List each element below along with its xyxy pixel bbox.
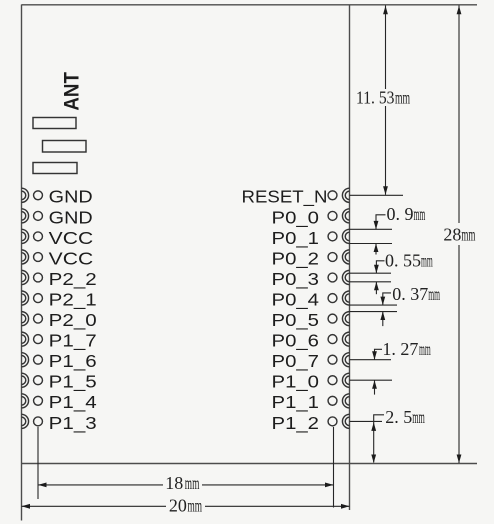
pin VCC (left row 3)	[22, 228, 94, 248]
dimension 1.27mm extension line at P1_0 row	[350, 379, 393, 381]
svg-text:P0_4: P0_4	[272, 289, 320, 310]
svg-text:11. 53: 11. 53	[356, 88, 395, 108]
svg-text:VCC: VCC	[49, 228, 93, 248]
svg-text:P1_6: P1_6	[49, 351, 97, 372]
pin RESET_N (right row 1)	[242, 187, 350, 208]
dimension 11.53mm line	[383, 6, 388, 195]
svg-text:P0_1: P0_1	[272, 228, 320, 249]
svg-text:P1_0: P1_0	[272, 372, 320, 393]
svg-text:2. 5: 2. 5	[385, 407, 412, 427]
svg-text:18: 18	[165, 473, 183, 493]
pin P1_5 (left row 10)	[22, 372, 97, 393]
module outline right edge	[349, 5, 351, 511]
dimension 0.37mm tangent lines between P0_4 and P0_5 pads	[350, 304, 398, 306]
pin P1_3 (left row 12)	[22, 413, 97, 434]
svg-text:mm: mm	[412, 409, 425, 428]
svg-text:P1_3: P1_3	[49, 413, 97, 434]
svg-text:P1_4: P1_4	[49, 392, 97, 413]
svg-text:28: 28	[443, 225, 461, 245]
extension line from pin P1_3 via	[37, 427, 39, 499]
pin P1_1 (right row 11)	[272, 392, 350, 413]
pin P1_7 (left row 8)	[22, 331, 97, 352]
svg-text:mm: mm	[188, 496, 203, 516]
svg-text:P0_0: P0_0	[272, 207, 320, 228]
extension line from pin P1_2 via	[333, 427, 335, 508]
svg-text:mm: mm	[395, 89, 411, 109]
dimension 2.5mm leader and arrows	[371, 415, 384, 463]
dimension 0.9mm tangent lines at P0_1 pad	[350, 228, 393, 230]
svg-text:P0_7: P0_7	[272, 351, 320, 372]
antenna pad 3	[33, 163, 77, 174]
pin P0_7 (right row 9)	[272, 351, 350, 372]
svg-text:ANT: ANT	[60, 72, 83, 111]
svg-text:P0_3: P0_3	[272, 269, 320, 290]
module outline top edge	[22, 4, 478, 6]
pin P2_2 (left row 5)	[22, 269, 97, 290]
pin P0_6 (right row 8)	[272, 331, 350, 352]
svg-text:mm: mm	[414, 204, 426, 224]
dimension 0.37mm leader and arrows	[380, 293, 391, 326]
pin VCC (left row 4)	[22, 248, 94, 268]
svg-text:P2_2: P2_2	[49, 269, 97, 290]
dimension 28mm line	[457, 6, 462, 464]
svg-text:P1_2: P1_2	[272, 413, 320, 434]
pin P0_0 (right row 2)	[272, 207, 350, 228]
dimension 20mm line	[22, 504, 350, 509]
svg-text:mm: mm	[419, 339, 431, 359]
antenna pad 2	[43, 141, 87, 153]
svg-text:P0_6: P0_6	[272, 331, 320, 352]
pin P2_0 (left row 7)	[22, 310, 98, 331]
dimension 1.27mm extension line at P0_7 row	[350, 359, 392, 361]
svg-text:GND: GND	[49, 187, 93, 207]
svg-text:mm: mm	[428, 284, 440, 304]
dimension 0.9mm leader and arrows	[374, 215, 386, 255]
svg-text:0. 37: 0. 37	[392, 284, 428, 304]
dimension 2.5mm extension line at P1_2 row	[350, 420, 383, 422]
svg-text:0. 55: 0. 55	[385, 250, 421, 270]
pin P0_3 (right row 5)	[272, 269, 350, 290]
svg-text:GND: GND	[49, 207, 93, 227]
svg-text:RESET_N: RESET_N	[242, 187, 328, 208]
svg-text:P1_5: P1_5	[49, 372, 97, 393]
dimension 0.55mm leader and arrows	[374, 261, 385, 294]
svg-text:P0_2: P0_2	[272, 248, 320, 269]
svg-text:VCC: VCC	[49, 248, 93, 268]
pin P1_6 (left row 9)	[22, 351, 97, 372]
pin P0_1 (right row 3)	[272, 228, 350, 249]
svg-text:1. 27: 1. 27	[382, 339, 418, 359]
svg-text:mm: mm	[421, 251, 433, 271]
module outline bottom edge	[22, 463, 478, 465]
pin P0_4 (right row 6)	[272, 289, 350, 310]
dimension 11.53mm extension line at RESET_N row	[350, 194, 404, 196]
pin P0_5 (right row 7)	[272, 310, 350, 331]
dimension 18mm line	[38, 483, 334, 488]
antenna pad 1	[33, 118, 76, 129]
pin GND (left row 1)	[22, 187, 93, 207]
svg-text:mm: mm	[461, 225, 475, 245]
pin P1_2 (right row 12)	[272, 413, 350, 434]
svg-text:0. 9: 0. 9	[387, 204, 414, 224]
module outline left edge	[21, 5, 23, 521]
svg-text:mm: mm	[185, 474, 200, 494]
svg-text:P2_1: P2_1	[49, 289, 97, 310]
svg-text:20: 20	[169, 495, 187, 515]
svg-text:P1_7: P1_7	[49, 331, 97, 352]
pin GND (left row 2)	[22, 207, 93, 227]
svg-text:P2_0: P2_0	[49, 310, 97, 331]
pin P1_4 (left row 11)	[22, 392, 98, 413]
svg-text:P0_5: P0_5	[272, 310, 320, 331]
dimension 0.55mm tangent lines at P0_3 hole	[350, 272, 392, 274]
svg-text:P1_1: P1_1	[272, 392, 320, 413]
pin P1_0 (right row 10)	[272, 372, 350, 393]
pin P0_2 (right row 4)	[272, 248, 350, 269]
dimension 1.27mm leader and arrows	[372, 349, 382, 394]
pin P2_1 (left row 6)	[22, 289, 97, 310]
